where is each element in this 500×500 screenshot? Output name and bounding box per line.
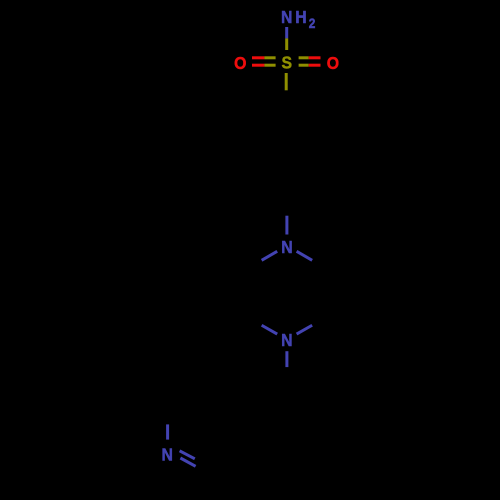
double bond N(pyridine)=C2 inner line: blue half: [180, 451, 195, 459]
double bond S=O right, upper line: red half: [309, 56, 321, 59]
svg-text:N: N: [281, 330, 292, 350]
svg-text:S: S: [281, 53, 292, 73]
svg-text:2: 2: [309, 15, 316, 31]
bond N(pyridine)-C6 vertical: blue half: [166, 424, 169, 439]
svg-text:N: N: [281, 237, 292, 257]
piperazine ring carbon bonds (invisible): [246, 260, 328, 325]
double bond N(pyridine)=C2 main line: blue half: [180, 458, 195, 466]
pyridine ring carbon bonds (invisible): [167, 367, 287, 476]
svg-text:H: H: [295, 7, 306, 27]
double bond S=O right, lower line: red half: [309, 64, 321, 67]
double bond S=O right, upper line: sulfur half: [299, 56, 309, 59]
bond C(benzene)-N(piperazine top): carbon half (invisible): [285, 197, 288, 216]
double bond S=O left, lower line: sulfur half: [264, 64, 275, 67]
bond S-C(benzene): carbon half (invisible): [285, 90, 288, 107]
bond N(pip bottom)-C lower-right: blue half: [297, 325, 313, 334]
bond N(pip top)-C upper-right: blue half: [297, 251, 313, 260]
svg-text:N: N: [161, 444, 172, 464]
svg-text:O: O: [234, 53, 246, 73]
double bond S=O left, upper line: red half: [252, 56, 264, 59]
svg-text:N: N: [281, 7, 292, 27]
svg-text:O: O: [327, 53, 339, 73]
bond N(sulfonamide)-S : blue half: [285, 27, 288, 38]
bond N(pip top)-C upper-left: blue half: [262, 251, 278, 260]
bond S-C(benzene): sulfur half: [285, 73, 288, 90]
bond N(pip bottom)-C lower-left: blue half: [262, 325, 278, 334]
bond N(sulfonamide)-S : sulfur half: [285, 38, 288, 50]
double bond S=O left, lower line: red half: [252, 64, 264, 67]
bond N(pip bottom)-CH2: blue half: [285, 351, 288, 367]
double bond S=O right, lower line: sulfur half: [299, 64, 309, 67]
bond C(benzene)-N(piperazine top): blue half: [285, 216, 288, 235]
label NH2 (sulfonamide nitrogen): [281, 7, 315, 32]
benzene ring (carbon bonds, invisible on black): [248, 108, 325, 197]
double bond S=O left, upper line: sulfur half: [264, 56, 275, 59]
